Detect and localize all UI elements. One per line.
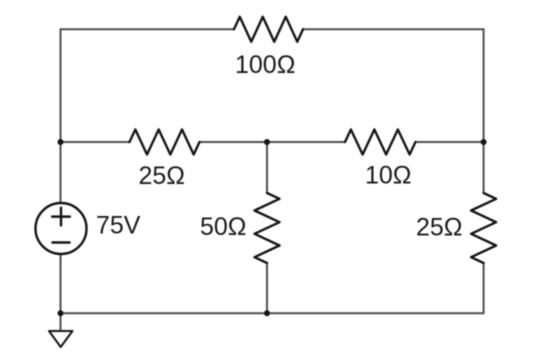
svg-text:25Ω: 25Ω [139,162,186,190]
wire left vertical lower segment [60,254,62,313]
resistor R1 100 ohm zigzag [234,17,303,42]
svg-text:75V: 75V [96,212,141,240]
wire middle right of R3 [416,141,484,143]
node dot left middle [58,139,64,145]
wire middle left of R2 [61,141,130,143]
wire top horizontal left of R1 [61,28,235,30]
wire ground stub [60,313,62,331]
wire center vertical upper [266,142,268,193]
voltage source plus sign [52,208,70,226]
wire right vertical upper [483,29,485,193]
svg-text:25Ω: 25Ω [416,214,463,242]
resistor R3 10 ohm zigzag [345,130,415,155]
wire middle between R2 and R3 [200,141,346,143]
ground symbol triangle [49,331,73,347]
svg-text:10Ω: 10Ω [365,162,412,190]
resistor R5 25 ohm right zigzag [471,193,496,263]
node dot center middle [264,139,270,145]
wire left vertical upper segment [60,29,62,203]
voltage source minus sign [53,241,70,244]
svg-text:50Ω: 50Ω [200,213,247,241]
wire center vertical lower [266,263,268,313]
wire bottom horizontal [61,312,484,314]
node dot bottom center [264,310,270,316]
wire right vertical lower [483,263,485,313]
voltage source V1 circle [36,203,87,254]
wire top horizontal right of R1 [303,28,484,30]
svg-text:100Ω: 100Ω [235,51,295,79]
node dot bottom left [58,310,64,316]
node dot right middle [481,139,487,145]
resistor R2 25 ohm zigzag [130,130,200,155]
resistor R4 50 ohm zigzag [255,193,280,263]
